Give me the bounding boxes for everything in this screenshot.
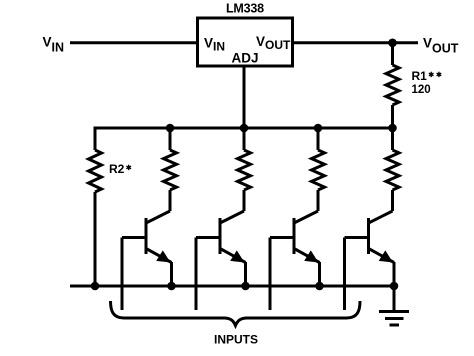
- junction ADJ rail branch 3: [314, 124, 323, 133]
- transistor Q4 collector lead: [369, 211, 393, 223]
- wire Q3 base: [270, 236, 294, 239]
- transistor Q1 emitter arrow: [156, 250, 170, 262]
- wire resistor to Q4 collector: [391, 190, 394, 211]
- wire Q1 emitter to ground rail: [170, 262, 173, 286]
- junction ground rail emitter Q2: [241, 282, 250, 291]
- wire resistor to Q3 collector: [317, 190, 320, 211]
- junction ADJ rail branch 1: [166, 124, 175, 133]
- junction ground rail emitter Q4: [390, 282, 399, 291]
- transistor Q3 emitter arrow: [304, 250, 318, 262]
- wire input 4 line: [343, 238, 346, 311]
- wire VIN input to U1 pin VIN: [70, 41, 197, 44]
- transistor Q3 base bar: [293, 218, 296, 254]
- svg-text:INPUTS: INPUTS: [214, 333, 258, 347]
- junction ground rail emitter Q1: [167, 282, 176, 291]
- wire R2 to ground rail: [94, 192, 97, 286]
- transistor Q1 emitter lead: [146, 249, 172, 263]
- svg-text:VOUT: VOUT: [423, 36, 459, 56]
- transistor Q4 base bar: [367, 218, 370, 254]
- resistor R2: [89, 150, 102, 192]
- wire Q2 emitter to ground rail: [244, 262, 247, 286]
- resistor R4 branch 2: [238, 150, 251, 190]
- junction output node top: [388, 39, 397, 48]
- resistor R5 branch 3: [312, 150, 325, 190]
- junction ADJ rail branch 2: [240, 124, 249, 133]
- transistor Q2 base bar: [219, 218, 222, 254]
- wire rail to ground symbol: [393, 286, 396, 312]
- wire ADJ rail to R2: [94, 127, 97, 151]
- wire Q3 emitter to ground rail: [318, 262, 321, 286]
- wire ADJ rail horizontal: [95, 127, 393, 130]
- wire VOUT node to R1: [391, 43, 394, 65]
- brace inputs group: [111, 301, 361, 326]
- wire Q4 emitter to ground rail: [393, 262, 396, 286]
- transistor Q2 collector lead: [220, 211, 244, 223]
- wire input 1 line: [121, 238, 124, 311]
- svg-text:VIN: VIN: [43, 35, 65, 55]
- regulator U1 LM338 box: [198, 18, 293, 66]
- resistor R3 branch 1: [164, 150, 177, 190]
- resistor R1: [386, 65, 399, 105]
- wire input 2 line: [195, 238, 198, 311]
- svg-text:R2 ✱: R2 ✱: [109, 162, 132, 176]
- junction ground rail emitter Q3: [315, 282, 324, 291]
- svg-text:ADJ: ADJ: [232, 51, 259, 66]
- wire Q2 base: [196, 236, 220, 239]
- svg-text:VOUT: VOUT: [256, 34, 291, 52]
- transistor Q2 emitter lead: [220, 249, 246, 263]
- wire resistor to Q2 collector: [243, 190, 246, 211]
- wire R1 to ADJ rail: [391, 105, 394, 128]
- wire input 3 line: [269, 238, 272, 311]
- junction ADJ rail branch 4: [388, 124, 397, 133]
- wire resistor to Q1 collector: [169, 190, 172, 211]
- transistor Q2 emitter arrow: [230, 250, 244, 262]
- transistor Q3 collector lead: [294, 211, 318, 223]
- wire U1 VOUT pin to output node: [293, 41, 418, 44]
- wire branch 3 rail to resistor: [317, 128, 320, 150]
- svg-text:LM338: LM338: [226, 2, 264, 16]
- transistor Q1 base bar: [145, 218, 148, 254]
- junction ground rail R2: [91, 282, 100, 291]
- resistor R6 branch 4: [386, 150, 399, 190]
- transistor Q4 emitter lead: [369, 249, 395, 263]
- wire U1 ADJ pin down: [243, 66, 246, 128]
- transistor Q1 collector lead: [146, 211, 170, 223]
- svg-text:VIN: VIN: [204, 36, 225, 54]
- svg-text:R1 ✱ ✱: R1 ✱ ✱: [412, 69, 443, 83]
- wire Q4 base: [345, 236, 369, 239]
- transistor Q3 emitter lead: [294, 249, 320, 263]
- svg-text:120: 120: [412, 84, 431, 96]
- wire branch 1 rail to resistor: [169, 128, 172, 150]
- ground symbol: [379, 312, 409, 326]
- wire branch 4 rail to resistor: [391, 128, 394, 150]
- transistor Q4 emitter arrow: [379, 250, 393, 262]
- wire branch 2 rail to resistor: [243, 128, 246, 150]
- wire ground rail: [70, 285, 394, 288]
- wire Q1 base: [122, 236, 146, 239]
